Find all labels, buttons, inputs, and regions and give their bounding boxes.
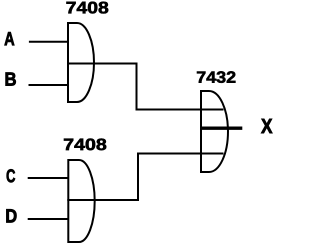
label U3 7432 bbox=[197, 71, 235, 83]
node B label bbox=[6, 73, 16, 86]
node D label bbox=[6, 209, 16, 222]
AND gate U1 (7408) bbox=[68, 23, 94, 102]
node A label bbox=[5, 32, 15, 45]
label U2 7408 bbox=[64, 139, 106, 151]
label U1 7408 bbox=[67, 2, 109, 14]
wire input D bbox=[28, 218, 69, 220]
wire output X bbox=[200, 126, 242, 129]
AND gate U2 (7408) bbox=[68, 160, 94, 242]
wire input B bbox=[29, 84, 70, 86]
wire input C bbox=[28, 177, 69, 179]
wire riser U1 to U3 bbox=[136, 63, 138, 110]
node X label bbox=[261, 119, 272, 133]
wire to U3 top input bbox=[136, 109, 224, 111]
wire to U3 bottom input bbox=[137, 153, 224, 155]
wire riser U2 to U3 bbox=[137, 154, 139, 202]
wire U1 output bbox=[67, 63, 137, 65]
wire U2 output bbox=[67, 199, 138, 201]
node C label bbox=[7, 169, 15, 182]
wire input A bbox=[29, 41, 69, 43]
OR gate U3 (7432) bbox=[201, 91, 228, 172]
